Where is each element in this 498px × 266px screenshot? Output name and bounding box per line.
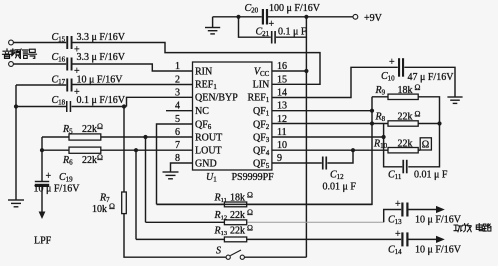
capacitor C16 [52,52,126,77]
node pin7 junction [134,148,138,152]
svg-text:REF1: REF1 [247,93,269,105]
LPF arrow [34,187,52,247]
wire pin14 REF to C10 riser [272,67,398,97]
wire pin8 GND to ground [171,163,193,172]
svg-text:47 μ F/16V: 47 μ F/16V [408,72,455,83]
wire C13 to arrow [409,206,445,213]
svg-text:C17: C17 [52,75,66,87]
svg-text:R11: R11 [214,192,227,204]
svg-text:LIN: LIN [253,80,270,91]
svg-text:QF6: QF6 [195,119,212,130]
wire pin16 Vcc stub [272,70,307,72]
+9V rail [213,16,353,18]
svg-text:VCC: VCC [254,67,270,79]
svg-text:ROUT: ROUT [195,132,222,143]
svg-text:22k Ω: 22k Ω [230,208,253,221]
node R6-C19 junction [40,148,44,152]
capacitor C13 10uF output [388,199,462,226]
svg-text:QF3: QF3 [253,132,270,144]
svg-text:10k Ω: 10k Ω [92,202,115,215]
resistor R9 18k [375,83,421,100]
wire terminal2 to C16 [13,63,66,65]
wire C15 to pin15 LIN (long route) [73,43,321,85]
wire R5 corner down to C19 [41,137,43,181]
node C18-left junction [14,104,18,108]
node pin13 junction [370,109,374,113]
capacitor C18 [52,95,126,112]
svg-text:C14: C14 [388,245,402,257]
svg-text:C16: C16 [52,52,66,64]
svg-text:0.01 μ F: 0.01 μ F [323,182,357,193]
svg-text:22k: 22k [398,138,413,149]
wire ground column to C18 [16,106,66,108]
svg-text:3.3 μ F/16V: 3.3 μ F/16V [77,52,126,63]
node pin16 junction [304,69,308,73]
wire R6 row (C19 node to chip pin7 LOUT) [42,149,193,151]
pin numbers 16-9 [277,61,287,164]
label 功放电路 (power amp circuit) [454,224,491,232]
pin numbers 1-8 [175,61,180,164]
op-amp/IC U1 PS9999PF body [193,62,272,170]
wire pin5 QF6 to R11 row [157,124,193,204]
capacitor C10 47uF [381,57,454,83]
svg-text:C13: C13 [388,215,402,227]
wire pin3 QEN/BYP jog [127,97,193,106]
capacitor C21 0.1uF [256,27,307,44]
node pin6 junction [143,135,147,139]
input terminal J2 (lower) [9,62,14,67]
wire C13 feed riser [384,210,402,223]
wire terminal1 to C15 [13,42,66,44]
svg-text:GND: GND [195,158,217,169]
node rail-C21 left junction [236,15,240,19]
small box outline right of R10 [420,138,431,150]
svg-text:14: 14 [277,87,287,98]
svg-text:R12: R12 [214,210,228,222]
svg-text:+: + [395,229,401,240]
svg-text:RIN: RIN [195,66,212,77]
svg-text:R10: R10 [373,138,388,150]
resistor R8 22k [375,110,421,127]
svg-text:C19: C19 [59,172,73,184]
wire C10 to right ground [404,67,455,96]
svg-text:NC: NC [195,106,209,117]
wire C14 to arrow [409,236,445,243]
svg-text:+: + [395,199,401,210]
svg-text:R8: R8 [375,112,386,124]
svg-text:R9: R9 [375,85,386,97]
resistor R13 22k [214,224,254,242]
wire C16 to pin1 RIN [73,64,193,71]
svg-text:LOUT: LOUT [195,146,222,157]
node pin11 junction [382,135,386,139]
capacitor C17 [52,75,124,99]
svg-text:+9V: +9V [364,13,383,24]
wire ground-column to C17 [16,84,66,86]
svg-text:2: 2 [175,74,180,85]
svg-text:R6: R6 [62,155,73,167]
input terminal J1 (upper) [9,40,14,45]
svg-text:10 μ F/16V: 10 μ F/16V [34,184,81,195]
ground (pin8) [163,172,179,179]
svg-text:10 μ F/16V: 10 μ F/16V [415,215,462,226]
node R8-right junction [437,121,441,125]
node R7-column junction [122,104,126,108]
label 音频信号 (audio signal) [3,49,37,58]
svg-text:22k Ω: 22k Ω [230,224,253,237]
svg-text:LPF: LPF [34,236,52,247]
wire C11 right to right vertical [408,124,439,167]
resistor R6 22k [62,147,103,166]
wire R13 row [136,238,401,240]
svg-text:C20: C20 [245,3,259,15]
svg-text:Ω: Ω [422,139,429,150]
svg-text:C18: C18 [52,95,66,107]
svg-text:10 μ F/16V: 10 μ F/16V [415,245,462,256]
capacitor C12 0.01uF [322,157,356,193]
wire outer vertical (R9 to R11 row) [157,97,373,205]
svg-text:QF2: QF2 [253,119,270,130]
svg-text:22kΩ: 22kΩ [82,153,103,166]
svg-text:PS9999PF: PS9999PF [232,172,275,183]
svg-text:R13: R13 [214,226,228,238]
capacitor C20 100uF [245,3,321,30]
ground (right of C10) [447,97,462,103]
wire C18 to pin3 column [72,106,127,108]
svg-text:S: S [216,246,221,257]
wire R11 row [157,203,373,205]
svg-text:+: + [389,57,395,68]
svg-text:0.1 μ F: 0.1 μ F [278,27,307,38]
svg-text:100 μ F/16V: 100 μ F/16V [269,3,321,14]
node rail-column junction [304,15,308,19]
ground (top, left end of rail) [205,17,220,34]
switch S [216,246,244,260]
+9V terminal [353,13,383,24]
resistor R7 10k (vertical) [92,192,126,215]
wire switch to +9V column [245,256,307,258]
svg-text:0.1 μ F/16V: 0.1 μ F/16V [77,95,126,106]
wire pin9 QF5 to C12 [272,162,322,164]
svg-text:QF1: QF1 [253,106,270,118]
wire R9 row [372,97,440,124]
wire pin10 QF4 / R10 row [272,149,420,151]
svg-text:REF1: REF1 [195,80,217,92]
svg-text:C12: C12 [330,170,344,182]
wire pin6 column down to R12 row [145,137,147,222]
wire R7 column (C18 node down to switch row) [123,107,125,193]
svg-text:C15: C15 [52,32,66,44]
node R8-left junction [370,121,374,125]
wire pin12 QF2 / R8 row [272,123,440,125]
svg-text:C10: C10 [381,71,395,83]
wire C12 right riser to R10 row [327,150,353,163]
wire R12 row faint extension [247,221,384,223]
resistor R12 22k [214,208,254,225]
resistor R5 22k [62,122,103,140]
svg-text:18k Ω: 18k Ω [230,190,253,203]
wire pin13 QF1 stub [272,110,372,112]
wire R7 bottom to switch [124,214,226,258]
wire C21 loop [239,17,307,37]
ground (bottom left) [8,200,24,207]
wire pin11 QF3 stub [272,136,384,138]
wire R5 row (corner to chip pin6 ROUT) [42,136,193,138]
wire pin4 NC stub [166,110,193,112]
svg-text:0.01 μ F: 0.01 μ F [414,170,448,181]
wire left ground column [15,85,17,200]
capacitor C19 (vertical electrolytic) [34,171,81,195]
svg-text:QEN/BYP: QEN/BYP [195,93,238,104]
svg-text:U1: U1 [206,172,217,184]
resistor R10 22k [373,138,429,153]
capacitor C15 [52,32,126,56]
svg-text:R5: R5 [62,124,73,136]
svg-text:+: + [269,19,275,30]
svg-text:3.3 μ F/16V: 3.3 μ F/16V [77,32,126,43]
resistor R11 18k [214,190,254,207]
wire pin7 column down to R13 row [135,150,137,239]
svg-text:C11: C11 [388,170,402,182]
svg-text:QF4: QF4 [253,146,270,158]
capacitor C14 10uF output [388,229,462,256]
wire C17 to pin2 REF1 [73,84,193,86]
capacitor C11 0.01uF [388,160,448,181]
node C12-top junction [351,148,355,152]
wire R12 row [146,221,225,223]
wire +9V column (rail down to switch row) [305,17,307,257]
wire inner vertical (R8 row to C11 row) [384,124,403,167]
svg-text:+: + [46,171,52,182]
svg-text:QF5: QF5 [253,158,270,170]
U1 reference designator text [206,172,274,184]
